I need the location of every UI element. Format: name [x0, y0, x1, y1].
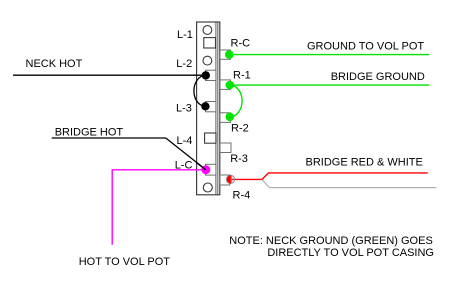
terminal L-C tab — [206, 164, 217, 175]
svg-text:R-4: R-4 — [233, 189, 251, 201]
svg-text:L-4: L-4 — [177, 135, 193, 147]
wire NECK HOT (black) — [13, 74, 206, 76]
svg-text:HOT TO VOL POT: HOT TO VOL POT — [79, 256, 171, 268]
junction dot R-C (green) — [225, 50, 234, 59]
svg-text:L-C: L-C — [175, 159, 193, 171]
mounting hole circle top — [203, 26, 212, 35]
wire BRIDGE HOT (black) — [52, 138, 206, 170]
svg-text:L-3: L-3 — [176, 102, 192, 114]
wire BRIDGE HOT overlay across L-C dot — [197, 163, 206, 170]
switch inner rail line 1 — [215, 22, 217, 195]
wire BRIDGE RED (red) — [231, 173, 428, 180]
wire GROUND TO VOL POT (green) — [229, 54, 429, 56]
svg-text:BRIDGE RED & WHITE: BRIDGE RED & WHITE — [306, 156, 423, 168]
svg-text:R-3: R-3 — [230, 153, 248, 165]
svg-text:R-1: R-1 — [233, 70, 251, 82]
switch body outer frame — [197, 22, 220, 195]
junction dot L-3 (black) — [201, 102, 209, 110]
wire jumper arc L-2 to L-3 (black) — [194, 75, 206, 106]
mounting hole circle bottom — [203, 183, 212, 192]
wire jumper arc R-1 to R-2 (green) — [230, 85, 242, 117]
svg-text:L-1: L-1 — [177, 29, 193, 41]
svg-text:NECK HOT: NECK HOT — [26, 58, 83, 70]
terminal R-4 tab — [220, 175, 230, 185]
svg-text:BRIDGE HOT: BRIDGE HOT — [55, 126, 124, 138]
wire HOT TO VOL POT (magenta) — [112, 170, 206, 245]
junction dot L-C (magenta) — [201, 165, 210, 174]
terminal R-1 tab — [220, 80, 231, 90]
svg-text:L-2: L-2 — [176, 58, 192, 70]
svg-text:GROUND TO VOL POT: GROUND TO VOL POT — [307, 40, 424, 52]
terminal R-3 tab (unconnected) — [220, 143, 231, 153]
terminal L-3 tab — [206, 102, 217, 112]
terminal L-4 square (unconnected) — [205, 133, 216, 143]
svg-text:BRIDGE GROUND: BRIDGE GROUND — [331, 71, 425, 83]
svg-text:DIRECTLY TO VOL POT CASING: DIRECTLY TO VOL POT CASING — [267, 247, 434, 259]
svg-text:R-C: R-C — [231, 38, 251, 50]
junction dot R-4 (gray circle, red left half) — [226, 175, 234, 183]
mounting hole circle middle — [203, 56, 212, 65]
wire BRIDGE GROUND (green) — [230, 84, 430, 86]
junction dot L-2 (black) — [202, 71, 210, 79]
switch inner rail line 2 — [217, 22, 219, 195]
junction dot R-1 (green) — [226, 81, 235, 90]
svg-text:R-2: R-2 — [231, 122, 249, 134]
terminal R-2 tab — [220, 113, 231, 123]
wire BRIDGE WHITE (gray) — [262, 180, 436, 188]
terminal R-C tab — [220, 50, 231, 59]
terminal L-1 square (unconnected) — [204, 38, 216, 48]
svg-text:NOTE: NECK GROUND (GREEN) GOES: NOTE: NECK GROUND (GREEN) GOES — [229, 235, 433, 247]
junction dot R-2 (green) — [226, 113, 235, 122]
terminal L-2 tab — [206, 70, 217, 80]
